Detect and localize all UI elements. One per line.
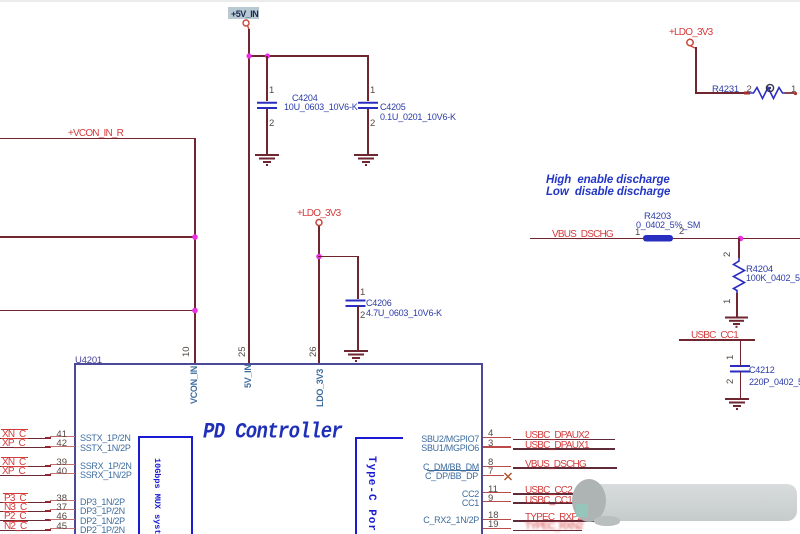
net label USBC_CC2 (pin 11) <box>525 485 572 496</box>
C4212 pin 2 <box>725 379 736 384</box>
C4204 refdes <box>292 93 318 103</box>
C4206 pin 2 <box>360 310 365 321</box>
net label VBUS_DSCHG (pin 8) <box>525 459 586 470</box>
wire 5V top horizontal <box>248 55 369 57</box>
pin 3 SBU1/MGPIO6 <box>483 446 511 448</box>
R4203 pin 1 <box>635 227 640 238</box>
C4212 value <box>749 377 800 387</box>
C4205 value <box>380 112 456 122</box>
pin 37 name DP3_1P/2N <box>80 506 125 516</box>
pin 18 name C_RX2_1N/2P <box>423 515 479 525</box>
net label XP_C (pin 42) <box>2 438 25 449</box>
net label N3_C (pin 37) <box>4 502 26 513</box>
wire mid horizontal 2 <box>0 310 196 312</box>
pin name VCON_IN <box>189 366 199 404</box>
pin 39 SSRX_1P/2N <box>0 466 49 467</box>
overline (active-low bar) <box>3 511 28 512</box>
pin 26 <box>308 346 319 357</box>
pin 38 number <box>56 493 67 504</box>
pin 11 CC2 <box>483 492 511 494</box>
net label USBC_DPAUX1 (pin 3) <box>525 440 589 451</box>
pin 41 SSTX_1P/2N <box>0 438 49 439</box>
inner box 10Gbps MUX <box>138 436 193 534</box>
power port +LDO_3V3 (middle) <box>297 208 340 219</box>
pin 18 number <box>488 510 499 521</box>
pin 41 name SSTX_1P/2N <box>80 433 131 443</box>
pin 42 SSTX_1N/2P <box>0 447 49 448</box>
wire mid horizontal 1 <box>0 236 196 238</box>
pin 40 SSRX_1N/2P <box>0 475 49 476</box>
net label N2_C (pin 45) <box>4 521 26 532</box>
inner box Type-C Port <box>355 437 403 534</box>
pin 8 name C_DM/BB_DM <box>423 462 479 472</box>
wire 5V_IN vertical <box>248 29 250 364</box>
pin 4 number <box>488 428 493 439</box>
R4231 refdes <box>712 84 739 95</box>
overline (active-low bar) <box>1 457 28 458</box>
overline (active-low bar) <box>3 493 28 494</box>
net label XP_C (pin 40) <box>2 466 25 477</box>
pin 4 SBU2/MGPIO7 <box>483 437 511 439</box>
net +VCON_IN_R <box>68 128 123 139</box>
wire LDO branch <box>318 256 359 258</box>
pin 7 name C_DP/BB_DP <box>425 471 478 481</box>
R4203 pin 2 <box>679 226 684 237</box>
net label TYPEC_RXN2 (pin 19, censored) <box>525 521 583 532</box>
net label XN_C (pin 39) <box>2 457 25 468</box>
overline (active-low bar) <box>3 502 28 503</box>
pin 38 DP3_1N/2P <box>0 502 49 503</box>
wire USBC_CC1 <box>679 339 755 341</box>
pin 46 DP2_1N/2P <box>0 520 49 521</box>
pin 9 name CC1 <box>462 498 479 508</box>
net label USBC_CC1 (pin 9) <box>525 495 572 506</box>
C4206 value <box>366 308 442 318</box>
overline (active-low bar) <box>1 466 28 467</box>
PD Controller title <box>203 419 342 444</box>
pin 42 number <box>56 438 67 449</box>
wire VBUS right <box>673 238 800 240</box>
capacitor C4204 <box>266 56 268 101</box>
net label USBC_DPAUX2 (pin 4) <box>525 430 589 441</box>
power port +5V_IN <box>228 7 259 19</box>
wire LDO right vertical <box>695 47 697 93</box>
pin 11 number <box>488 484 498 495</box>
pin name 5V_IN <box>243 364 253 388</box>
page top edge strip <box>0 0 800 2</box>
note text <box>546 175 670 198</box>
C4206 refdes <box>366 298 392 308</box>
R4204 pin 2 <box>722 252 733 257</box>
power port +LDO_3V3 (top right) <box>669 27 712 38</box>
net VBUS_DSCHG <box>552 229 613 240</box>
R4203 refdes <box>644 211 671 222</box>
net label P2_C (pin 46) <box>4 511 26 522</box>
net label TYPEC_RXP2 (pin 18) <box>525 512 582 523</box>
pin 38 name DP3_1N/2P <box>80 497 125 507</box>
pin 46 name DP2_1N/2P <box>80 516 125 526</box>
pin 39 name SSRX_1P/2N <box>80 461 132 471</box>
pin 45 number <box>56 521 67 532</box>
pin 7 number <box>488 466 493 477</box>
pin 19 number <box>488 519 499 530</box>
pin 42 name SSTX_1N/2P <box>80 443 131 453</box>
C4205 refdes <box>380 102 406 112</box>
pin 4 name SBU2/MGPIO7 <box>421 434 479 444</box>
wire VCON horizontal <box>0 138 196 140</box>
overline (active-low bar) <box>1 429 28 430</box>
R4204 refdes <box>746 264 773 275</box>
pin 25 <box>237 346 248 357</box>
pin 45 DP2_1P/2N <box>0 530 49 531</box>
pin 40 name SSRX_1N/2P <box>80 470 132 480</box>
censor blob <box>585 484 797 521</box>
wire VCON vertical <box>194 138 196 365</box>
C4212 pin 1 <box>725 355 736 360</box>
pin 9 CC1 <box>483 501 511 503</box>
net label XN_C (pin 41) <box>2 429 25 440</box>
pin 45 name DP2_1P/2N <box>80 525 125 534</box>
C4206 pin 1 <box>360 287 365 298</box>
overline (active-low bar) <box>3 521 28 522</box>
pin 10 <box>181 346 192 357</box>
C4204 pin 2 <box>269 118 274 129</box>
capacitor C4206 <box>357 256 359 299</box>
C4204 value <box>284 102 358 112</box>
IC body U4201 <box>74 363 483 534</box>
pin name LDO_3V3 <box>315 369 325 407</box>
op block U4201 designator <box>75 355 102 366</box>
pin 37 number <box>56 502 67 513</box>
wire VBUS left <box>530 238 644 240</box>
pin 46 number <box>56 511 67 522</box>
C4205 pin 2 <box>370 118 375 129</box>
pin 39 number <box>56 457 67 468</box>
pin 37 DP3_1P/2N <box>0 511 49 512</box>
R4231 pin 2 <box>747 84 752 95</box>
R4204 pin 1 <box>722 299 733 304</box>
overline (active-low bar) <box>1 438 28 439</box>
pin 3 name SBU1/MGPIO6 <box>421 443 479 453</box>
resistor R4204 <box>738 238 740 258</box>
capacitor C4205 <box>367 56 369 101</box>
pin 18 C_RX2_1N/2P <box>483 519 511 521</box>
R4203 value <box>636 220 700 230</box>
C4204 pin 1 <box>269 85 274 96</box>
pin 3 number <box>488 438 493 449</box>
net label P3_C (pin 38) <box>4 493 26 504</box>
C4205 pin 1 <box>370 85 375 96</box>
pin 19 <box>483 528 511 530</box>
wire LDO vertical <box>318 226 320 365</box>
pin 9 number <box>488 493 493 504</box>
C4212 refdes <box>749 365 775 375</box>
pin 41 number <box>56 429 67 440</box>
wire to R4231 <box>695 92 748 94</box>
R4204 value <box>746 273 800 283</box>
pin 8 number <box>488 457 493 468</box>
pin 7 C_DP/BB_DP (nc) <box>483 475 504 477</box>
pin 11 name CC2 <box>462 489 479 499</box>
net USBC_CC1 (upper right) <box>691 330 738 341</box>
R4231 pin 1 <box>791 84 796 95</box>
pin 8 C_DM/BB_DM <box>483 466 511 468</box>
pin 40 number <box>56 466 67 477</box>
